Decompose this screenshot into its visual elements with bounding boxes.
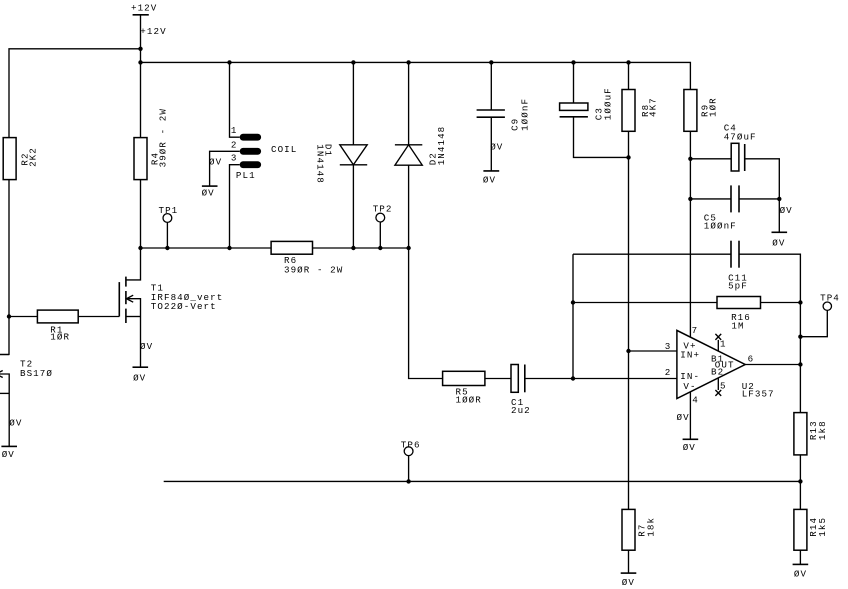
svg-text:6: 6 <box>748 353 755 364</box>
svg-text:ØV: ØV <box>2 449 15 460</box>
node junction at 140.5,48.8 <box>138 47 142 51</box>
wire IN+ row <box>629 350 677 352</box>
resistor R16 1M <box>717 297 761 332</box>
node junction at 628.5,157.4 <box>626 155 630 159</box>
pin B2 no-connect <box>715 378 721 396</box>
svg-text:4K7: 4K7 <box>648 97 659 117</box>
wire D2 anode down to R5 <box>409 165 443 378</box>
transistor T1 IRF840 <box>119 248 223 367</box>
node junction at 800.4,364.5 <box>798 362 802 366</box>
svg-text:2u2: 2u2 <box>511 405 531 416</box>
capacitor C5 100nF <box>704 185 739 231</box>
wire bottom row <box>164 480 801 482</box>
svg-text:TO22Ø-Vert: TO22Ø-Vert <box>151 301 217 312</box>
wire op-amp output <box>745 364 800 366</box>
wire R5 to C1 <box>485 378 511 380</box>
node junction at 408.6,481.4 <box>406 479 410 483</box>
svg-text:1ØR: 1ØR <box>50 332 70 343</box>
resistor R13 1k8 <box>794 413 828 455</box>
wire D1 cathode <box>352 165 354 248</box>
svg-text:39ØR - 2W: 39ØR - 2W <box>284 264 343 275</box>
wire C9 bottom to ground <box>490 117 492 171</box>
node junction at 573,378.5 <box>571 376 575 380</box>
wire C4 right down to C5 node <box>745 159 780 233</box>
svg-text:+12V: +12V <box>131 2 157 13</box>
capacitor C3 100uF <box>560 87 614 120</box>
resistor R2 <box>3 138 38 180</box>
svg-text:2: 2 <box>665 367 672 378</box>
svg-text:ØV: ØV <box>622 577 635 588</box>
svg-text:PL1: PL1 <box>236 170 256 181</box>
wire R14 bottom to ground <box>799 550 801 564</box>
wire +12V rail top <box>141 62 691 89</box>
svg-text:ØV: ØV <box>683 442 696 453</box>
ground T2 source <box>1 446 17 460</box>
wire R8 top <box>628 62 630 89</box>
wire R7 bottom to ground <box>628 550 630 573</box>
node junction at 573,302.5 <box>571 300 575 304</box>
node junction at 140.5,248 <box>138 246 142 250</box>
resistor R8 <box>622 90 659 132</box>
resistor R9 <box>684 90 718 132</box>
svg-text:TP4: TP4 <box>820 293 840 304</box>
node junction at 800.4,302.5 <box>798 300 802 304</box>
wire R1 right to T1 gate <box>78 316 119 318</box>
wire R1 left <box>9 316 37 318</box>
testpoint TP1 <box>159 205 179 248</box>
wire R13 bottom to R14 top <box>799 455 801 510</box>
wire R16 left <box>573 302 717 304</box>
wire C5 right <box>739 198 779 200</box>
testpoint TP4 <box>800 293 839 337</box>
svg-text:ØV: ØV <box>794 569 807 580</box>
wire C9 top <box>490 62 492 110</box>
svg-text:BS17Ø: BS17Ø <box>20 368 53 379</box>
resistor R14 1k5 <box>794 509 828 550</box>
svg-text:B2: B2 <box>711 366 724 377</box>
wire +12V rail left <box>9 49 141 138</box>
node junction at 229.5,62.4 <box>227 60 231 64</box>
svg-text:TP2: TP2 <box>373 203 393 214</box>
svg-text:ØV: ØV <box>202 188 215 199</box>
svg-text:1N4148: 1N4148 <box>314 144 325 184</box>
resistor R7 18k <box>622 509 657 550</box>
wire D2 cathode <box>408 62 410 144</box>
node junction at 800.4,336.7 <box>798 335 802 339</box>
svg-text:1ØØnF: 1ØØnF <box>704 220 737 231</box>
node junction at 690.4,198.9 <box>688 197 692 201</box>
wire R4 bottom to node row <box>140 180 142 248</box>
svg-text:ØV: ØV <box>140 341 153 352</box>
node junction at 779.3,198.9 <box>777 197 781 201</box>
svg-text:LF357: LF357 <box>742 389 775 400</box>
wire C5 left <box>690 198 731 200</box>
node junction at 167.4,248 <box>165 246 169 250</box>
wire R4 column <box>140 49 142 138</box>
wire C4 left <box>690 158 731 160</box>
wire C3 top <box>573 62 575 103</box>
node junction at 573.5,62.4 <box>571 60 575 64</box>
svg-text:5pF: 5pF <box>728 281 748 292</box>
wire C3 bottom to R8 column <box>574 117 629 158</box>
svg-text:3: 3 <box>231 153 238 164</box>
svg-text:ØV: ØV <box>780 205 793 216</box>
svg-text:ØV: ØV <box>772 238 785 249</box>
node junction at 491.3,62.4 <box>489 60 493 64</box>
connector PL1 pin 3 pad <box>240 161 261 168</box>
wire main row left <box>141 247 272 249</box>
ground PL1 pin 2 <box>202 186 218 199</box>
wire op-amp pin 4 to ground <box>689 392 691 440</box>
wire D1 anode <box>352 62 354 144</box>
svg-text:ØV: ØV <box>133 372 146 383</box>
resistor R6 <box>271 241 343 275</box>
svg-text:1ØR: 1ØR <box>707 97 718 117</box>
node junction at 690.4,158.8 <box>688 157 692 161</box>
svg-text:1ØØR: 1ØØR <box>456 395 482 406</box>
ground T1 source <box>133 367 149 383</box>
capacitor C11 5pF <box>728 241 748 292</box>
svg-text:+12V: +12V <box>140 26 166 37</box>
wire feedback column <box>572 254 574 378</box>
svg-text:V-: V- <box>683 381 696 392</box>
svg-text:ØV: ØV <box>677 412 690 423</box>
node junction at 408.6,62.4 <box>406 60 410 64</box>
connector PL1 pin 1 pad <box>240 134 261 141</box>
wire main row right of R6 <box>313 247 409 249</box>
node junction at 408.6,248 <box>406 246 410 250</box>
wire PL1 pin 1 <box>230 62 240 137</box>
svg-text:1: 1 <box>720 339 727 350</box>
wire PL1 pin 3 down <box>230 165 240 248</box>
svg-text:1ØØnF: 1ØØnF <box>519 98 530 131</box>
svg-text:IN+: IN+ <box>680 350 700 361</box>
svg-text:1k8: 1k8 <box>817 420 828 440</box>
transistor T2 BS170 <box>0 351 53 447</box>
svg-text:2K2: 2K2 <box>27 147 38 167</box>
resistor R4 <box>134 108 168 180</box>
testpoint TP2 <box>373 203 393 248</box>
wire R16 right <box>761 302 801 304</box>
connector PL1 pin 2 pad <box>240 148 261 155</box>
node junction at 353.4,62.4 <box>351 60 355 64</box>
capacitor C1 2u2 <box>511 365 531 416</box>
svg-text:1: 1 <box>231 125 238 136</box>
wire PL1 pin 2 to ground <box>210 151 240 186</box>
svg-text:2: 2 <box>231 139 238 150</box>
ground C5 <box>772 232 788 248</box>
ground R14 <box>793 564 809 579</box>
ground C9 <box>483 171 499 186</box>
op-amp U2 LF357 <box>677 330 745 398</box>
node junction at 628.5,351 <box>626 349 630 353</box>
svg-text:ØV: ØV <box>209 156 222 167</box>
svg-text:47ØuF: 47ØuF <box>724 131 757 142</box>
diode D1 1N4148 <box>314 144 367 184</box>
svg-text:1N4148: 1N4148 <box>436 126 447 166</box>
wire C11 left <box>573 253 731 255</box>
capacitor C4 470uF <box>724 123 757 171</box>
svg-text:1M: 1M <box>731 320 744 331</box>
ground U2 pin 4 <box>683 439 699 453</box>
resistor R5 100R <box>443 371 485 405</box>
wire R8 column down to R7 <box>628 131 630 509</box>
svg-text:1k5: 1k5 <box>817 517 828 537</box>
svg-text:1ØØuF: 1ØØuF <box>603 87 614 120</box>
wire R2 bottom to T2 drain <box>0 180 9 355</box>
node junction at 9,316.5 <box>7 314 11 318</box>
testpoint TP6 <box>401 439 421 481</box>
capacitor C9 100nF <box>477 98 531 131</box>
node junction at 380.3,248 <box>378 246 382 250</box>
pin B1 no-connect <box>715 334 721 351</box>
node junction at 353.4,248 <box>351 246 355 250</box>
svg-text:COIL: COIL <box>271 144 297 155</box>
ground R7 <box>621 573 637 588</box>
node junction at 800.4,481.4 <box>798 479 802 483</box>
svg-text:18k: 18k <box>646 517 657 537</box>
svg-text:3: 3 <box>665 341 672 352</box>
wire C1 to op-amp IN- <box>525 378 677 380</box>
svg-text:39ØR - 2W: 39ØR - 2W <box>157 108 168 167</box>
svg-text:ØV: ØV <box>483 175 496 186</box>
wire R9 column down to op-amp pin 7 <box>689 131 691 337</box>
wire C11 right to output rail <box>739 254 800 412</box>
diode D2 1N4148 <box>395 126 447 166</box>
node junction at 140.5,62.4 <box>138 60 142 64</box>
node junction at 229.5,248 <box>227 246 231 250</box>
node junction at 628.5,62.4 <box>626 60 630 64</box>
svg-text:ØV: ØV <box>9 418 22 429</box>
resistor R1 <box>37 310 78 343</box>
svg-text:4: 4 <box>692 395 699 406</box>
svg-text:ØV: ØV <box>490 141 503 152</box>
power +12V <box>131 2 157 48</box>
svg-text:7: 7 <box>692 325 699 336</box>
